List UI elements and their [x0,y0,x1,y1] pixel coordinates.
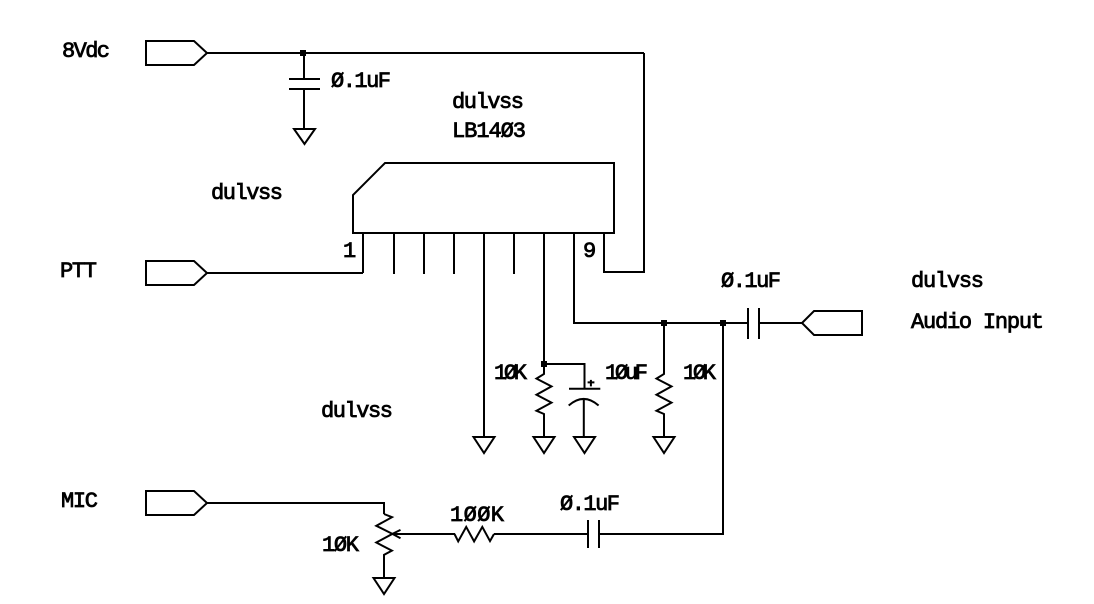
junction dot 8Vdc/C1 [300,50,306,56]
ground under pot [374,578,395,594]
wire pin7 node to 10uF [544,364,585,388]
ground under pin 5 [474,437,495,453]
svg-text:1ØØK: 1ØØK [450,503,505,528]
junction dot pin7 node [541,361,547,367]
IC U1 LB1403 body [353,163,614,233]
ground under 10uF [574,437,595,453]
resistor R 10K under pin 7 [537,363,552,437]
svg-text:dulvss: dulvss [911,269,984,294]
capacitor C 0.1uF audio coupling [748,308,759,339]
svg-text:1: 1 [343,239,356,264]
wire audio junction down to bottom net [599,323,723,534]
svg-text:LB14Ø3: LB14Ø3 [452,119,526,144]
wire cap to audio input port [759,322,802,324]
wire MIC to pot [207,503,384,514]
capacitor C1 0.1uF bypass [289,53,320,129]
ground under C1 [294,129,315,144]
port MIC flag [146,491,207,515]
svg-text:Ø.1uF: Ø.1uF [331,69,391,94]
pot wiper arrow [392,530,400,538]
svg-text:MIC: MIC [61,489,98,514]
svg-text:Ø.1uF: Ø.1uF [560,492,620,517]
resistor R 100K [455,527,495,542]
pin 4 [453,233,455,274]
svg-text:1ØK: 1ØK [494,361,528,386]
svg-text:1ØK: 1ØK [683,361,717,386]
plus sign of 10uF [588,380,595,387]
port PTT flag [146,261,207,285]
svg-text:dulvss: dulvss [452,90,524,115]
junction dot audio line / feedback [720,320,726,326]
pin 3 [423,233,425,274]
pin 5 wire to ground [483,233,485,437]
potentiometer 10K body [376,514,392,578]
pin 6 [513,233,515,274]
capacitor C 0.1uF mic coupling [588,520,599,548]
wire wiper to 100K [392,533,455,535]
ground under 10K pin7 [534,437,555,453]
wire 100K to cap [494,533,588,535]
pin 7 wire [543,233,545,363]
pin 8 wire to audio line [574,233,748,323]
svg-text:PTT: PTT [60,259,97,284]
svg-text:Audio Input: Audio Input [911,310,1044,335]
port Audio Input flag [802,311,862,335]
ground under 10K audio [654,437,675,453]
junction dot audio line / 10K [661,320,667,326]
svg-text:dulvss: dulvss [211,181,283,206]
resistor R 10K audio [657,323,672,437]
wire 8Vdc rail [207,52,644,54]
pin 1 [362,233,364,273]
wire PTT to pin 1 [207,272,363,274]
pin 9 wire to 8Vdc rail [604,53,644,272]
capacitor C 10uF polarized [569,389,601,437]
port 8Vdc flag [146,41,207,65]
svg-text:1ØuF: 1ØuF [605,361,648,386]
svg-text:Ø.1uF: Ø.1uF [721,269,781,294]
svg-text:dulvss: dulvss [321,399,393,424]
svg-text:8Vdc: 8Vdc [62,39,110,64]
svg-text:1ØK: 1ØK [322,533,360,558]
svg-text:9: 9 [583,239,596,264]
pin 2 [393,233,395,274]
